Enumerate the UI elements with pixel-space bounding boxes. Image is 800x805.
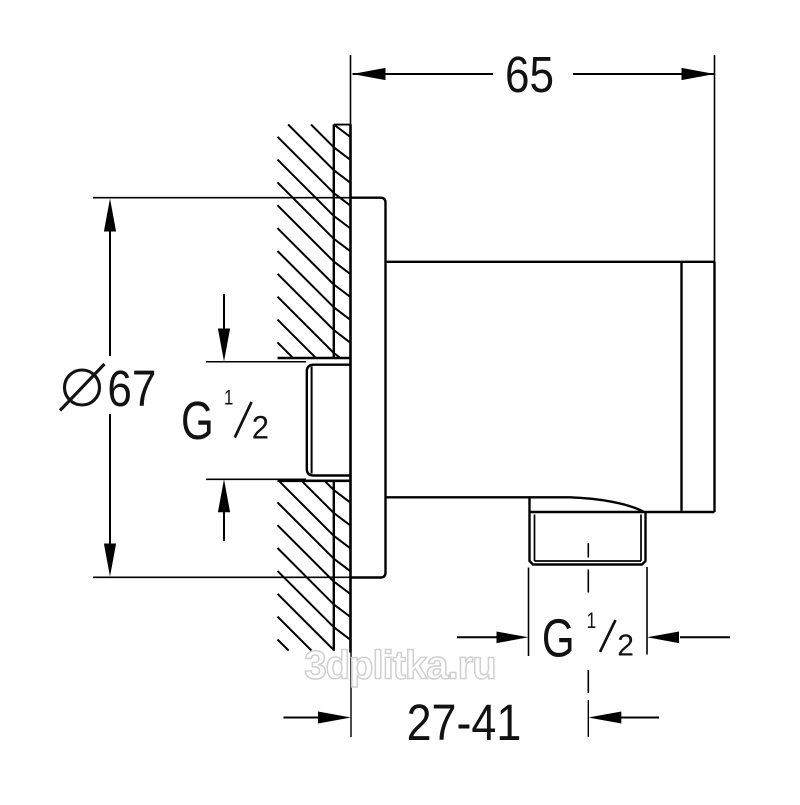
- inlet socket inner rim line: [311, 367, 313, 474]
- body bottom edge with elbow curve: [386, 497, 644, 511]
- label G12 bottom fraction slash: [600, 620, 616, 652]
- arrow G12 bottom right: [647, 632, 679, 644]
- arrow 2741 left: [318, 712, 351, 724]
- svg-text:65: 65: [505, 47, 554, 104]
- arrow 2741 right tail: [621, 717, 660, 719]
- wall opening edge bottom: [278, 479, 351, 482]
- outlet nipple G1/2 thread: [530, 497, 646, 564]
- nipple thread minor line right: [640, 515, 642, 562]
- arrow G12 left top tail: [223, 294, 225, 329]
- body end cap inner line: [680, 263, 682, 511]
- label G12 left fraction slash: [235, 402, 252, 438]
- dimension line 65: [353, 73, 715, 75]
- extension line flange top: [93, 197, 352, 199]
- extension line flange bottom: [93, 576, 352, 578]
- arrow dia67 bottom: [104, 544, 116, 577]
- extension line nipple left: [528, 568, 530, 657]
- nipple center axis dashes: [587, 543, 589, 693]
- extension line nipple right: [646, 567, 648, 655]
- extension line nipple axis bottom: [587, 700, 589, 737]
- wall top cap stub: [334, 124, 351, 126]
- arrow G12 bottom left: [497, 632, 529, 644]
- wall hatch stem line: [333, 125, 335, 651]
- nipple chamfer bottom line: [535, 560, 642, 562]
- arrow G12 bottom right tail: [680, 636, 730, 638]
- arrow G12 left top: [218, 329, 230, 362]
- arrow G12 left bottom: [218, 479, 230, 512]
- arrow G12 left bottom tail: [223, 512, 225, 541]
- label dia67 diameter symbol slash: [60, 364, 105, 411]
- wall face line: [349, 124, 352, 652]
- wall opening edge top: [278, 357, 351, 360]
- svg-text:G: G: [542, 609, 575, 669]
- nipple thread minor line left: [534, 515, 536, 562]
- body right end face: [713, 262, 715, 512]
- svg-text:3dplitka.ru: 3dplitka.ru: [304, 644, 495, 688]
- inlet socket G1/2 female union: [307, 365, 351, 476]
- extension line body right top: [714, 55, 716, 262]
- wall hatching (herringbone): [278, 125, 351, 651]
- label dia67 diameter symbol circle: [65, 370, 100, 405]
- body cylinder top edge: [386, 261, 715, 263]
- svg-text:1: 1: [587, 609, 597, 633]
- extension line wall face top: [350, 55, 352, 124]
- arrow 2741 right: [588, 712, 621, 724]
- svg-text:2: 2: [617, 628, 634, 663]
- arrow dia67 top: [104, 199, 116, 232]
- arrow G12 bottom left tail: [457, 636, 498, 638]
- svg-text:1: 1: [224, 387, 233, 410]
- body bottom shoulder line: [530, 511, 715, 514]
- arrow 65 left: [353, 68, 386, 80]
- extension line socket bottom: [206, 478, 306, 480]
- escutcheon flange (side view): [351, 198, 386, 578]
- extension line wall face bottom: [350, 653, 352, 738]
- extension line socket top: [206, 361, 306, 363]
- svg-text:2: 2: [252, 409, 269, 446]
- dimension line dia67: [109, 231, 111, 545]
- arrow 65 right: [682, 68, 715, 80]
- svg-text:G: G: [181, 391, 214, 451]
- svg-text:67: 67: [107, 361, 156, 418]
- arrow 2741 left tail: [284, 717, 320, 719]
- svg-text:27-41: 27-41: [407, 695, 522, 751]
